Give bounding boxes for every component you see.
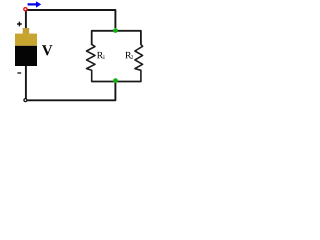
bottom junction node (green)	[113, 78, 118, 83]
battery V: gold top half	[15, 34, 37, 46]
node B: black open terminal	[24, 99, 27, 102]
background	[0, 0, 150, 110]
current arrow (blue)	[28, 1, 42, 7]
label R1	[97, 52, 103, 58]
wire: from bottom junction down and left to node B	[27, 82, 115, 101]
node A: red open terminal	[24, 8, 27, 11]
label V	[42, 45, 52, 55]
wire: top bar of parallel pair with end stubs down	[92, 31, 141, 45]
minus sign	[17, 72, 21, 74]
plus sign	[17, 22, 22, 27]
resistor R1	[87, 44, 96, 81]
battery V: black bottom half	[15, 46, 37, 66]
wire: battery bottom lead	[25, 66, 27, 99]
wire: battery top lead	[25, 10, 27, 29]
label R2	[125, 52, 131, 58]
top junction node (green)	[113, 28, 118, 33]
wire: bottom bar of parallel pair	[92, 81, 141, 83]
battery V: terminal nub	[23, 28, 30, 34]
resistor R2	[135, 44, 143, 81]
wire: top horizontal from node A to right corner, down to top junction	[27, 10, 115, 28]
